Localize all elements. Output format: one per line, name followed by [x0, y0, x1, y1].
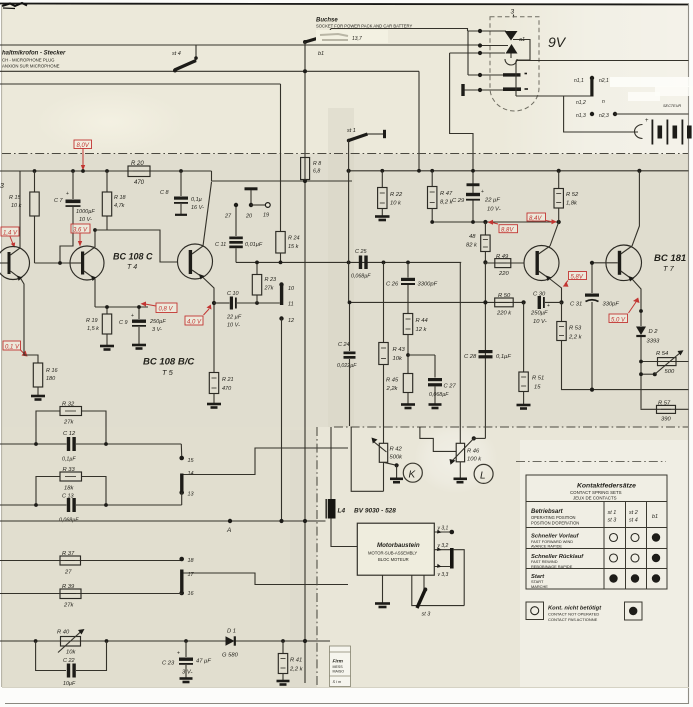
wire: vertical bus x305 from b1 down [304, 42, 306, 683]
contact triangle lower [506, 44, 518, 54]
svg-text:CH - MICROPHONE PLUG: CH - MICROPHONE PLUG [2, 58, 55, 63]
svg-text:9V: 9V [548, 34, 567, 50]
node A line y521 [0, 519, 326, 534]
svg-text:12: 12 [288, 318, 294, 324]
contact pins 10 11 12 [279, 282, 295, 521]
capacitor C13 [59, 494, 79, 524]
supply rail right (y170.8) [349, 170, 689, 172]
svg-text:st 2: st 2 [629, 510, 638, 516]
resistor R32 with bracket [36, 402, 106, 445]
capacitor C7 electrolytic [54, 171, 95, 263]
svg-text:C 28: C 28 [464, 354, 477, 360]
capacitor C11 [215, 203, 263, 263]
svg-text:n1,2: n1,2 [576, 100, 586, 106]
svg-text:n: n [602, 99, 605, 105]
svg-text:4,7k: 4,7k [114, 203, 125, 209]
top-left scribble mark [2, 3, 27, 6]
dashed socket outline [490, 17, 539, 111]
resistor R57 [641, 401, 689, 423]
svg-text:CONTACT PAS ACTIONNE: CONTACT PAS ACTIONNE [548, 617, 598, 622]
svg-text:R 23: R 23 [265, 277, 278, 283]
svg-text:BC 108 C: BC 108 C [113, 252, 153, 262]
svg-text:R 8: R 8 [313, 161, 321, 167]
resistor R22 [375, 171, 403, 220]
svg-text:C 13: C 13 [62, 494, 75, 500]
svg-text:BC 108 B/C: BC 108 B/C [143, 357, 194, 368]
transistor T6 [524, 222, 562, 302]
svg-text:R 52: R 52 [566, 192, 579, 198]
selector circle L [474, 464, 493, 483]
n contact bar [590, 77, 593, 97]
wire: vertical x419 to rail [418, 71, 420, 171]
red voltage 5,8V [563, 272, 587, 287]
svg-text:10: 10 [288, 286, 295, 292]
svg-text:R 20: R 20 [131, 161, 144, 167]
resistor R19 [86, 305, 148, 349]
motor wire to st3 bottom [412, 575, 464, 605]
resistor R47 [428, 171, 454, 222]
svg-text:CONTACT NOT OPERATED: CONTACT NOT OPERATED [548, 612, 599, 617]
svg-text:OPERATING POSITION: OPERATING POSITION [531, 515, 576, 520]
svg-text:3300pF: 3300pF [418, 282, 438, 288]
svg-text:8,0V: 8,0V [77, 143, 90, 149]
svg-text:C 26: C 26 [386, 282, 399, 288]
motor contact v3,2 with bar [434, 543, 464, 606]
svg-text:st 4: st 4 [629, 518, 638, 524]
junction b1 bus on mic lower line [303, 69, 307, 73]
svg-text:R 45: R 45 [386, 378, 399, 384]
switch st3 [417, 575, 431, 617]
svg-text:+: + [481, 189, 484, 195]
T contact left [461, 84, 464, 96]
contact 20 19 [224, 187, 270, 219]
svg-text:n2,1: n2,1 [599, 78, 609, 84]
svg-text:R 51: R 51 [532, 376, 544, 382]
svg-text:R 47: R 47 [440, 191, 453, 197]
svg-text:D 1: D 1 [227, 629, 236, 635]
bottom left paper [2, 427, 317, 688]
svg-text:3 V-: 3 V- [182, 670, 192, 676]
svg-text:BLOC MOTEUR: BLOC MOTEUR [378, 557, 409, 562]
contact pins 15 14 13 [179, 448, 348, 505]
socket battery contact bar lower [503, 87, 521, 91]
resistor R41 [277, 639, 304, 684]
svg-text:330pF: 330pF [603, 302, 620, 308]
capacitor C26 [386, 262, 438, 313]
mid band paper [2, 154, 689, 427]
n block left vertical [515, 61, 517, 97]
svg-text:T 7: T 7 [663, 264, 675, 273]
svg-text:n1,3: n1,3 [576, 113, 586, 119]
motor contact v3,1 [434, 526, 454, 535]
contact row 5 [465, 89, 504, 91]
red voltage 8,0V [74, 140, 92, 171]
node line y222 [432, 221, 559, 223]
svg-text:10 V-: 10 V- [533, 319, 547, 325]
svg-text:C 22: C 22 [63, 658, 75, 664]
svg-text:C 7: C 7 [54, 198, 64, 204]
contact spring set table [526, 475, 667, 589]
svg-text:+: + [66, 191, 69, 197]
svg-text:haltmikrofon - Stecker: haltmikrofon - Stecker [2, 51, 66, 57]
resistor R16 [24, 341, 59, 400]
wire to battery [564, 96, 638, 132]
resistor R50 [495, 293, 514, 316]
svg-text:+: + [177, 651, 180, 657]
scanner glare blob [414, 422, 498, 494]
svg-text:R 54: R 54 [656, 351, 668, 357]
contact dots column [478, 29, 482, 92]
svg-text:Kontaktfedersätze: Kontaktfedersätze [577, 483, 636, 490]
resistor R39 [0, 584, 182, 609]
svg-text:MOTOR-SUB-ASSEMBLY: MOTOR-SUB-ASSEMBLY [368, 551, 417, 556]
switch b1 [303, 29, 331, 58]
wire: socket row3 corner down [450, 53, 473, 186]
capacitor C8 [160, 171, 204, 215]
table zone lighter [520, 440, 689, 688]
svg-text:220: 220 [498, 271, 509, 277]
svg-text:3393: 3393 [647, 339, 661, 345]
svg-text:st 1: st 1 [347, 128, 356, 134]
svg-text:1,8k: 1,8k [566, 201, 578, 207]
capacitor C22 with bracket [36, 641, 107, 687]
red voltage 1,4V [1, 227, 19, 248]
svg-text:27: 27 [64, 570, 72, 576]
contact row a1 top [468, 30, 506, 32]
svg-text:C 30: C 30 [533, 292, 546, 298]
svg-text:SOCKET FOR POWER PACK AND CAR: SOCKET FOR POWER PACK AND CAR BATTERY [316, 24, 412, 29]
red voltage 8,4V [527, 213, 557, 224]
svg-text:15 k: 15 k [288, 244, 299, 250]
svg-text:250µF: 250µF [149, 319, 166, 325]
resistor R49 [485, 254, 524, 277]
contact row 3 [450, 52, 505, 54]
svg-text:R 32: R 32 [62, 402, 75, 408]
wire: b1 to socket [331, 29, 468, 32]
svg-text:470: 470 [222, 386, 232, 392]
svg-text:SECTEUR: SECTEUR [663, 104, 681, 108]
socket contact column vertical [467, 31, 469, 75]
svg-text:10 V-: 10 V- [227, 323, 240, 329]
svg-text:R 22: R 22 [390, 192, 403, 198]
svg-text:C 10: C 10 [227, 291, 240, 297]
resistor R21 [207, 303, 234, 408]
resistor R24 [276, 84, 300, 262]
capacitor C9 electrolytic [119, 305, 166, 348]
svg-text:500: 500 [665, 369, 675, 375]
svg-text:CONTACT SPRING SETS: CONTACT SPRING SETS [570, 490, 622, 495]
capacitor C10 [212, 291, 280, 329]
capacitor C30 electrolytic [530, 292, 562, 326]
svg-text:R 19: R 19 [86, 318, 98, 324]
n2,3 wire to right [615, 113, 689, 115]
schematic paper top band [2, 3, 689, 154]
svg-text:st 4: st 4 [172, 51, 181, 57]
paper bottom edge [2, 687, 689, 689]
resistor R51 [517, 302, 545, 408]
svg-text:MARCHE: MARCHE [531, 584, 548, 589]
svg-text:MESS: MESS [333, 665, 344, 669]
resistor R44 [403, 314, 427, 374]
svg-text:180: 180 [46, 376, 56, 382]
svg-text:13: 13 [188, 492, 195, 498]
svg-text:0,068µF: 0,068µF [429, 392, 449, 398]
svg-text:10 k: 10 k [390, 201, 402, 207]
svg-text:v 3,1: v 3,1 [438, 526, 449, 532]
svg-text:0,1µF: 0,1µF [496, 354, 511, 360]
resistor R18 [102, 171, 126, 230]
svg-text:n1,1: n1,1 [574, 78, 584, 84]
svg-text:R 40: R 40 [57, 630, 70, 636]
signal line y302 [350, 301, 524, 303]
svg-text:T 5: T 5 [162, 368, 174, 377]
svg-text:390: 390 [661, 417, 671, 423]
svg-text:R 37: R 37 [62, 551, 75, 557]
white-out patches [610, 77, 690, 87]
resistor R45 [386, 374, 416, 409]
dash line above table [516, 461, 666, 463]
svg-text:220 k: 220 k [496, 311, 512, 317]
svg-text:D 2: D 2 [649, 329, 659, 335]
svg-text:BC 181: BC 181 [654, 253, 686, 264]
svg-text:JEUX DE CONTACTS: JEUX DE CONTACTS [573, 496, 617, 501]
Buchse socket title [316, 18, 412, 44]
contact triangle a1 upper [505, 31, 518, 41]
svg-text:2,2 k: 2,2 k [289, 667, 304, 673]
motor contact v3,3 [434, 564, 450, 578]
svg-text:st 3: st 3 [608, 518, 617, 524]
legend contact not operated [526, 602, 602, 622]
svg-text:0,068µF: 0,068µF [351, 274, 371, 280]
svg-text:G 580: G 580 [222, 653, 239, 659]
svg-text:0,1 V: 0,1 V [5, 345, 20, 351]
svg-text:Firm: Firm [333, 659, 344, 665]
potentiometer R42 [351, 427, 403, 491]
svg-text:n2,3: n2,3 [599, 113, 609, 119]
red voltage 8,8V [488, 220, 518, 234]
page frame right border [688, 4, 690, 704]
svg-text:10k: 10k [66, 650, 76, 656]
rail jog down [212, 171, 353, 181]
svg-text:22 µF: 22 µF [484, 198, 500, 204]
main dash-dot separator line [2, 153, 688, 155]
wire: mic line upper [0, 44, 480, 46]
svg-text:R 53: R 53 [569, 326, 582, 332]
svg-text:C 23: C 23 [162, 661, 175, 667]
svg-text:27: 27 [224, 214, 232, 220]
svg-text:1,5 k: 1,5 k [87, 326, 99, 332]
svg-text:500k: 500k [390, 455, 404, 461]
svg-text:C 9: C 9 [119, 320, 128, 326]
capacitor C29 electrolytic [452, 183, 501, 222]
svg-text:C 11: C 11 [215, 242, 226, 248]
line y505 [0, 503, 182, 507]
resistor R43 [379, 262, 406, 443]
svg-text:10µF: 10µF [63, 681, 76, 687]
svg-text:13,7: 13,7 [352, 36, 362, 42]
svg-text:T 4: T 4 [127, 264, 137, 271]
svg-text:5,0 V: 5,0 V [611, 317, 626, 323]
svg-text:ANXION SUR MICROPHONE: ANXION SUR MICROPHONE [2, 64, 60, 69]
battery cells 9V [635, 118, 692, 145]
n1,1 dot [590, 76, 594, 80]
svg-text:22 µF: 22 µF [226, 315, 242, 321]
red voltage 0,8V [141, 302, 178, 313]
resistor R52 [554, 171, 579, 222]
svg-text:27k: 27k [63, 603, 74, 609]
svg-text:47 µF: 47 µF [196, 659, 211, 665]
svg-text:AVANCE RAPIDE: AVANCE RAPIDE [531, 544, 562, 549]
svg-text:L: L [480, 471, 486, 482]
svg-text:6,8: 6,8 [313, 169, 320, 175]
svg-text:19: 19 [263, 213, 269, 219]
svg-text:16 V-: 16 V- [191, 205, 204, 211]
switch st1 [347, 128, 386, 142]
svg-text:8,8V: 8,8V [501, 228, 514, 234]
page frame top black line [0, 4, 689, 5]
capacitor C31 [570, 263, 619, 392]
svg-text:12 k: 12 k [416, 327, 428, 333]
resistor R23 [252, 262, 277, 303]
svg-text:3 V-: 3 V- [152, 327, 162, 333]
svg-text:16: 16 [188, 591, 195, 597]
svg-text:R 44: R 44 [416, 318, 428, 324]
svg-text:3: 3 [511, 9, 515, 16]
svg-text:R 16: R 16 [46, 368, 59, 374]
potentiometer R46 [420, 262, 486, 482]
scan seam strip [328, 108, 354, 427]
svg-text:10k: 10k [393, 356, 403, 362]
transistor T3 [0, 171, 30, 341]
selector circle K [403, 463, 422, 482]
svg-text:2,2k: 2,2k [386, 386, 399, 392]
contact loop around a1 [505, 40, 530, 66]
capacitor C25 [351, 249, 371, 280]
capacitor C27 [408, 355, 457, 408]
svg-text:+: + [547, 303, 550, 309]
red voltage 3,6V [71, 224, 90, 247]
svg-text:R 33: R 33 [63, 467, 76, 473]
resistor R15 [9, 171, 39, 263]
svg-text:R 21: R 21 [222, 377, 234, 383]
motor sub-assembly box [357, 523, 434, 575]
svg-text:100 k: 100 k [467, 457, 482, 463]
red voltage 5,0V [609, 298, 640, 324]
svg-text:b1: b1 [318, 51, 324, 57]
dash-dot separator bottom [334, 426, 688, 428]
dash-dot vertical separator [316, 427, 318, 687]
svg-text:10 V-: 10 V- [487, 207, 501, 213]
potentiometer R40 [0, 629, 330, 656]
resistor R33 with bracket [36, 467, 106, 505]
svg-text:R 42: R 42 [390, 447, 403, 453]
svg-text:4,0 V: 4,0 V [187, 320, 202, 326]
svg-text:BV 9030 - 528: BV 9030 - 528 [354, 508, 396, 515]
svg-text:15: 15 [188, 458, 195, 464]
resistor R20 [128, 161, 150, 186]
svg-text:R 41: R 41 [290, 658, 302, 664]
svg-text:MAISO: MAISO [333, 670, 345, 674]
svg-text:10 V-: 10 V- [79, 217, 92, 223]
svg-text:+: + [645, 118, 649, 124]
svg-text:b1: b1 [652, 514, 658, 520]
wire: mic line lower [0, 70, 419, 72]
bottom right panel paper [317, 427, 689, 688]
svg-text:1000µF: 1000µF [76, 209, 95, 215]
resistor R37 [0, 551, 182, 576]
svg-text:0,8 V: 0,8 V [159, 307, 174, 313]
T5 base coupling wire [95, 230, 178, 262]
n block top line [516, 60, 689, 62]
input line y86 [0, 83, 281, 85]
svg-text:v 3,3: v 3,3 [438, 572, 449, 578]
svg-text:15: 15 [534, 385, 541, 391]
svg-text:8,4V: 8,4V [529, 216, 542, 222]
svg-text:82 k: 82 k [466, 243, 478, 249]
contact tick marks [525, 73, 528, 75]
svg-text:R 50: R 50 [498, 293, 511, 299]
svg-text:C 25: C 25 [355, 249, 368, 255]
svg-text:27k: 27k [63, 420, 74, 426]
line y444 [0, 442, 182, 456]
n1,2 wire [516, 95, 591, 97]
svg-text:3,6 V: 3,6 V [73, 228, 88, 234]
svg-text:27k: 27k [264, 286, 274, 292]
contact row 2 [480, 45, 508, 47]
resistor R53 [557, 302, 689, 389]
svg-text:C 27: C 27 [444, 384, 457, 390]
svg-text:48: 48 [469, 234, 476, 240]
svg-text:1,4 V: 1,4 V [3, 231, 18, 237]
motor ground [375, 575, 390, 607]
svg-text:R 43: R 43 [393, 347, 406, 353]
svg-text:C 29: C 29 [452, 198, 465, 204]
potentiometer R54 [639, 350, 688, 376]
red voltage 0,1V [3, 341, 28, 357]
svg-text:2,2 k: 2,2 k [568, 335, 583, 341]
transistor T4 [35, 228, 108, 307]
svg-text:L4: L4 [338, 508, 346, 515]
svg-text:0,1µF: 0,1µF [62, 457, 76, 463]
svg-text:C 8: C 8 [160, 190, 170, 196]
svg-text:18: 18 [188, 558, 195, 564]
svg-text:R 18: R 18 [114, 195, 127, 201]
st1 bus vertical [348, 141, 350, 303]
capacitor C23 electrolytic [162, 639, 211, 682]
svg-text:st 3: st 3 [422, 612, 432, 618]
svg-text:+: + [131, 313, 134, 319]
resistor R8 [301, 158, 322, 180]
n contact block labels [574, 78, 609, 119]
svg-text:20: 20 [245, 214, 253, 220]
legend contact operated [625, 602, 643, 620]
svg-text:R 24: R 24 [288, 236, 300, 242]
svg-text:250µF: 250µF [530, 311, 548, 317]
svg-text:A: A [226, 527, 231, 534]
svg-text:Motorbaustein: Motorbaustein [377, 542, 420, 549]
contact row 4 [468, 74, 503, 76]
capacitor C24 [337, 302, 357, 426]
svg-text:5,8V: 5,8V [571, 274, 584, 280]
bus x485 down [484, 262, 486, 438]
inductor L4 [326, 427, 397, 547]
capacitor C12 [62, 431, 76, 463]
page frame bottom border [5, 703, 689, 705]
svg-text:R 49: R 49 [496, 254, 509, 260]
n1,3 dots [590, 112, 594, 116]
socket battery contact bar upper [503, 73, 521, 76]
firm label box bottom [330, 646, 351, 687]
